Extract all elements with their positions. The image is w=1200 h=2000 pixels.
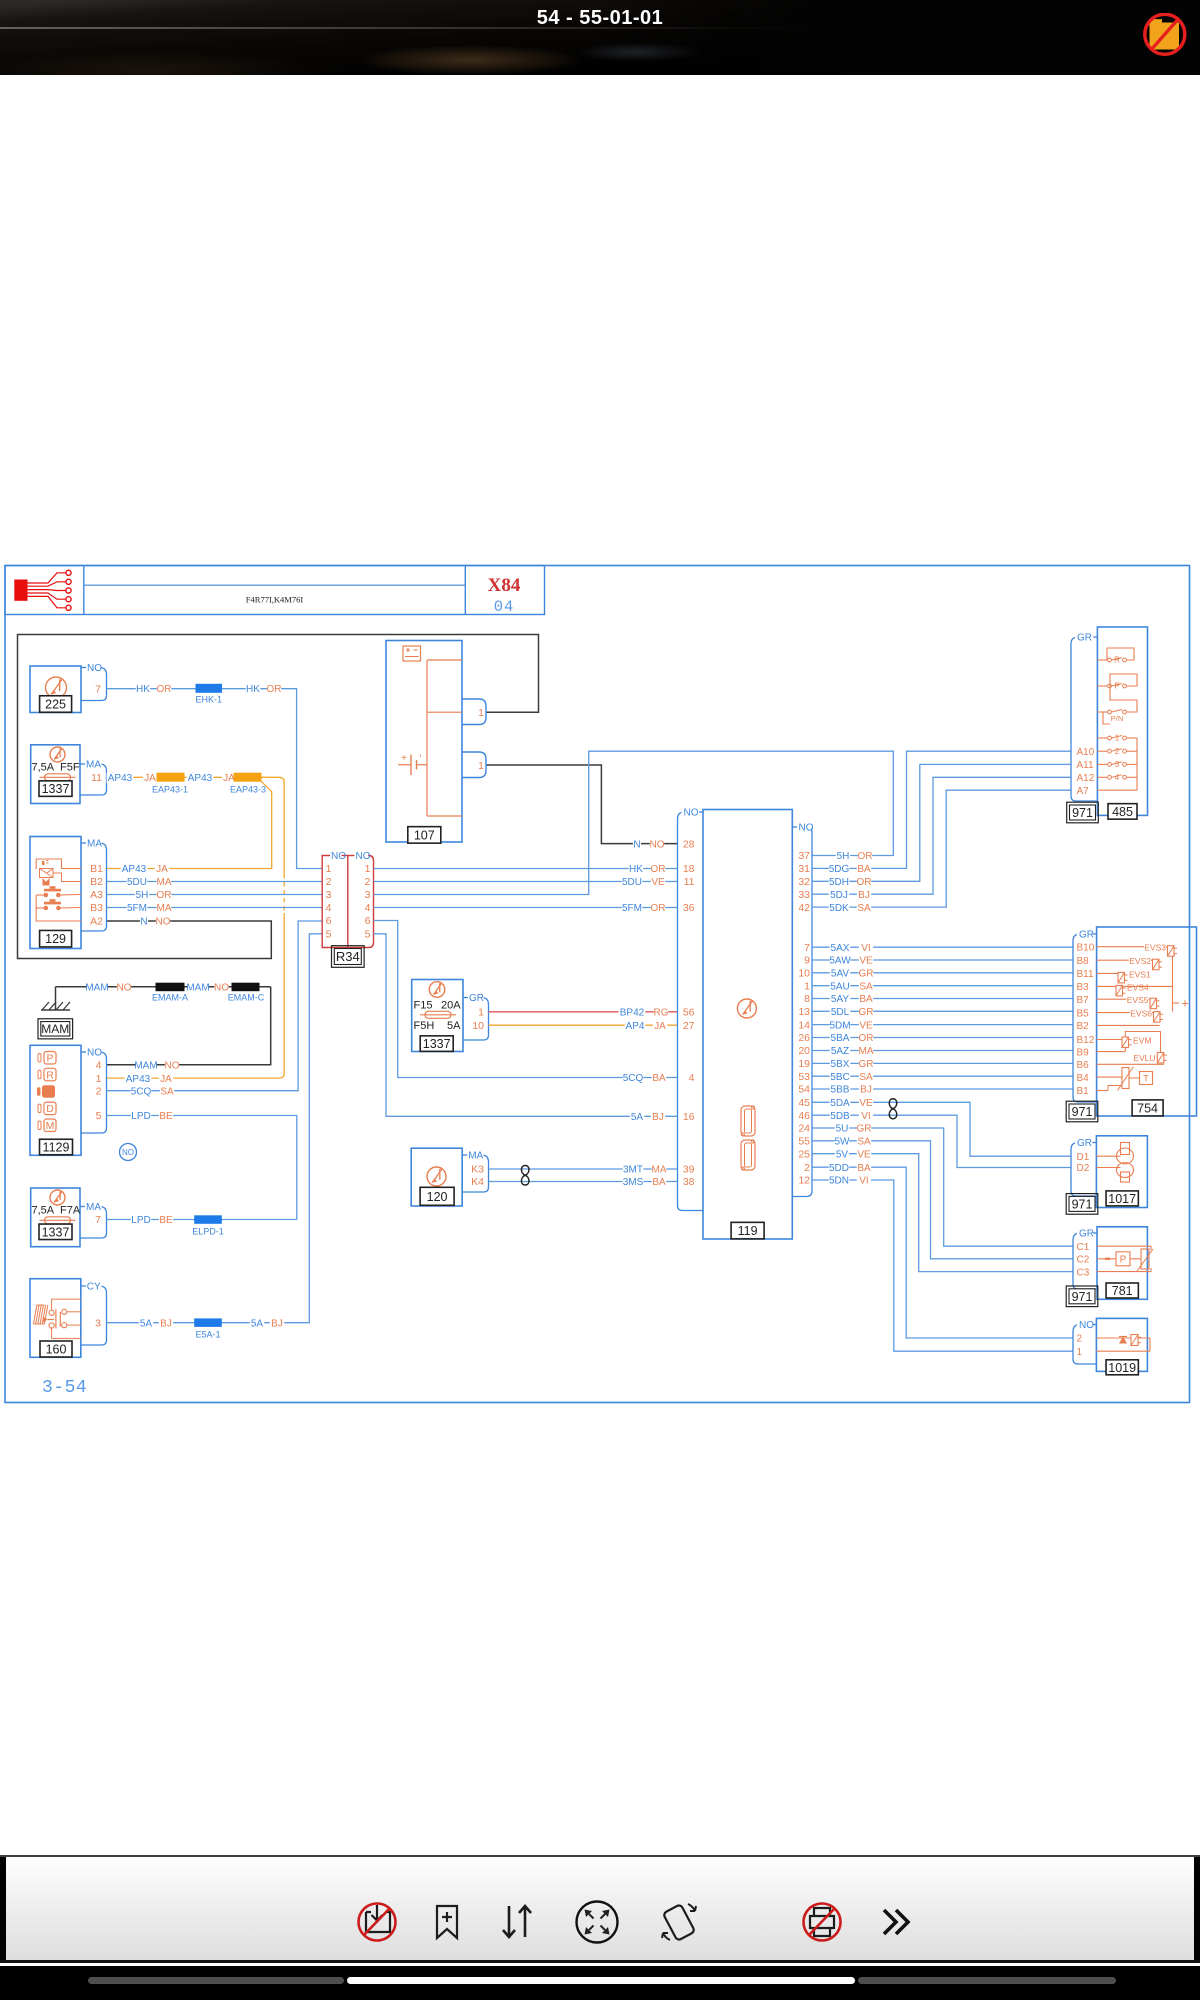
wire 5W-SA 119.55 to 781.C2 bbox=[812, 1136, 1073, 1259]
connector bracket F7A pin MA/7 bbox=[80, 1201, 107, 1239]
svg-text:971: 971 bbox=[1072, 1105, 1093, 1119]
label 971 (781) bbox=[1066, 1286, 1098, 1307]
svg-text:MAM: MAM bbox=[41, 1022, 69, 1036]
svg-text:3MS: 3MS bbox=[623, 1177, 644, 1188]
svg-text:1: 1 bbox=[96, 1073, 102, 1085]
svg-text:5DH: 5DH bbox=[829, 877, 849, 888]
svg-text:B7: B7 bbox=[1077, 995, 1090, 1006]
svg-text:B12: B12 bbox=[1077, 1035, 1095, 1046]
wire 5H-OR 129.A3 to R34 bbox=[107, 890, 323, 901]
svg-text:HK: HK bbox=[246, 684, 260, 695]
component 120 (sensor) bbox=[411, 1148, 462, 1206]
svg-text:B6: B6 bbox=[1077, 1060, 1090, 1071]
connector bracket 1017 GR/D1,D2 bbox=[1071, 1137, 1096, 1197]
wire 5DJ-BJ 119.33 to 485.A12 bbox=[812, 777, 1071, 901]
svg-text:9: 9 bbox=[804, 955, 810, 967]
connector bracket 120 pins MA/K3,K4 bbox=[462, 1149, 488, 1192]
svg-text:OR: OR bbox=[651, 864, 666, 875]
component 1337 fuses F15 20A / F5H 5A bbox=[412, 980, 463, 1052]
svg-text:R: R bbox=[1114, 656, 1120, 665]
svg-text:225: 225 bbox=[45, 698, 66, 712]
svg-text:EAP43-1: EAP43-1 bbox=[152, 784, 188, 794]
wire LPD-BE F7A to ELPD-1 bbox=[107, 1215, 297, 1226]
svg-text:1: 1 bbox=[478, 760, 484, 772]
wire 3MT-MA 120.K3 to 119 pin 39 bbox=[489, 1165, 678, 1176]
wire 5DU-VE R34.2 to 119 pin 11 bbox=[374, 877, 678, 888]
svg-text:EVLU: EVLU bbox=[1133, 1053, 1155, 1063]
wire 5AU-SA 119 to 754.B3 bbox=[812, 981, 1073, 992]
label 781 bbox=[1106, 1283, 1138, 1298]
svg-text:AP43: AP43 bbox=[108, 773, 133, 784]
svg-text:8: 8 bbox=[804, 993, 810, 1005]
svg-text:24: 24 bbox=[798, 1123, 810, 1135]
svg-text:5: 5 bbox=[365, 929, 371, 941]
svg-text:1: 1 bbox=[1115, 734, 1120, 743]
svg-text:B11: B11 bbox=[1077, 969, 1094, 980]
splice EHK-1 bbox=[196, 684, 223, 704]
svg-text:1: 1 bbox=[478, 707, 484, 719]
svg-text:MA: MA bbox=[86, 1202, 101, 1213]
svg-text:14: 14 bbox=[798, 1019, 810, 1031]
page reference 3-54 bbox=[42, 1378, 87, 1398]
svg-text:5FM: 5FM bbox=[622, 903, 642, 914]
svg-text:7: 7 bbox=[804, 942, 810, 954]
svg-text:4: 4 bbox=[326, 902, 332, 914]
component 119 (injection ECU) bbox=[703, 810, 792, 1240]
svg-text:26: 26 bbox=[798, 1032, 810, 1044]
wire 5DG-BA 119.31 to 485.A10 bbox=[812, 751, 1071, 875]
wire AP4-JA F5H to 119 pin 27 bbox=[489, 1021, 678, 1032]
svg-text:5AU: 5AU bbox=[830, 981, 849, 992]
svg-text:OR: OR bbox=[157, 684, 172, 695]
svg-text:5A: 5A bbox=[631, 1112, 644, 1123]
svg-text:A2: A2 bbox=[90, 916, 103, 928]
svg-text:AP43: AP43 bbox=[126, 1074, 151, 1085]
svg-text:20: 20 bbox=[798, 1045, 810, 1057]
svg-text:AP43: AP43 bbox=[188, 773, 213, 784]
wire HK-OR R34.1 to 119 pin 18 bbox=[374, 864, 678, 875]
component 225 (sensor) bbox=[30, 666, 81, 713]
svg-text:39: 39 bbox=[683, 1164, 695, 1176]
svg-text:F4R77I,K4M76I: F4R77I,K4M76I bbox=[246, 595, 304, 605]
svg-text:EVS1: EVS1 bbox=[1129, 969, 1151, 979]
svg-text:EVS6: EVS6 bbox=[1130, 1009, 1152, 1019]
svg-text:5CQ: 5CQ bbox=[623, 1073, 644, 1084]
svg-text:BA: BA bbox=[652, 1073, 666, 1084]
connector bracket F5F pin MA/11 bbox=[80, 758, 107, 795]
label 971 (754) bbox=[1066, 1101, 1098, 1122]
svg-text:120: 120 bbox=[427, 1190, 448, 1204]
component 1337 fuse F7A 7,5A bbox=[31, 1188, 81, 1247]
component 1017 (fuel pump/injector) bbox=[1096, 1136, 1147, 1208]
svg-text:B3: B3 bbox=[1077, 982, 1090, 993]
svg-text:5W: 5W bbox=[835, 1137, 851, 1148]
wire 5A-BJ R34.5 to 119 pin 16 bbox=[374, 934, 678, 1123]
svg-text:5FM: 5FM bbox=[127, 903, 147, 914]
wire 3MS-BA 120.K4 to 119 pin 38 bbox=[489, 1177, 678, 1188]
svg-text:485: 485 bbox=[1112, 805, 1133, 819]
svg-text:B8: B8 bbox=[1077, 956, 1090, 967]
label 1019 bbox=[1106, 1360, 1138, 1375]
svg-text:GR: GR bbox=[859, 1007, 874, 1018]
svg-text:16: 16 bbox=[683, 1111, 695, 1123]
svg-text:5A: 5A bbox=[447, 1020, 461, 1032]
label 1017 bbox=[1106, 1191, 1138, 1206]
svg-text:T: T bbox=[1143, 1073, 1149, 1083]
svg-text:5AV: 5AV bbox=[831, 969, 849, 980]
svg-text:NO: NO bbox=[117, 982, 132, 993]
svg-text:5DU: 5DU bbox=[622, 877, 642, 888]
svg-text:5DG: 5DG bbox=[829, 864, 850, 875]
svg-text:R: R bbox=[46, 1069, 54, 1081]
svg-text:5: 5 bbox=[96, 1110, 102, 1122]
connector bracket 119 right NO bbox=[792, 821, 813, 1197]
svg-text:MA: MA bbox=[468, 1151, 483, 1162]
svg-text:GR: GR bbox=[1077, 633, 1092, 644]
header X84 label bbox=[488, 575, 521, 616]
svg-text:19: 19 bbox=[798, 1058, 810, 1070]
svg-text:11: 11 bbox=[684, 876, 695, 888]
svg-text:GR: GR bbox=[1079, 1229, 1094, 1240]
svg-text:2: 2 bbox=[365, 876, 371, 888]
wire 5BX-GR 119 to 754.B6 bbox=[812, 1059, 1073, 1070]
svg-text:D: D bbox=[46, 1103, 54, 1115]
svg-text:5AW: 5AW bbox=[829, 956, 851, 967]
wire 5AW-VE 119 to 754.B8 bbox=[812, 956, 1073, 967]
connector bracket 129 pins MA/B1,B2,A3,B3,A2 bbox=[81, 837, 107, 931]
svg-text:SA: SA bbox=[859, 981, 873, 992]
svg-text:3-54: 3-54 bbox=[42, 1378, 87, 1398]
svg-text:NO: NO bbox=[156, 917, 171, 928]
svg-text:4: 4 bbox=[96, 1060, 102, 1072]
svg-text:EAP43-3: EAP43-3 bbox=[230, 784, 266, 794]
svg-text:5DA: 5DA bbox=[830, 1098, 850, 1109]
svg-text:NO: NO bbox=[799, 823, 814, 834]
svg-text:5BX: 5BX bbox=[831, 1059, 850, 1070]
svg-text:04: 04 bbox=[494, 598, 515, 616]
svg-text:OR: OR bbox=[157, 890, 172, 901]
svg-text:EVS2: EVS2 bbox=[1129, 956, 1151, 966]
svg-text:5AZ: 5AZ bbox=[831, 1046, 849, 1057]
svg-text:6: 6 bbox=[326, 915, 332, 927]
svg-text:OR: OR bbox=[857, 877, 872, 888]
twisted pair mark 1017 wires bbox=[889, 1099, 897, 1119]
svg-text:P: P bbox=[1114, 682, 1119, 691]
svg-text:EMAM-A: EMAM-A bbox=[152, 993, 188, 1003]
wire AP43-JA fuse F5F to splices bbox=[107, 773, 285, 1078]
svg-text:B2: B2 bbox=[1077, 1021, 1090, 1032]
svg-text:BA: BA bbox=[859, 994, 873, 1005]
svg-text:BA: BA bbox=[857, 1163, 871, 1174]
svg-text:SA: SA bbox=[859, 1072, 873, 1083]
wire 5DA-VE 119.45 to 1017.D1 bbox=[812, 1098, 1071, 1156]
svg-text:BJ: BJ bbox=[271, 1318, 283, 1329]
svg-text:1: 1 bbox=[478, 1007, 484, 1019]
svg-text:3MT: 3MT bbox=[623, 1165, 643, 1176]
svg-text:3: 3 bbox=[365, 889, 371, 901]
svg-text:JA: JA bbox=[156, 864, 168, 875]
battery pin 2 (lower) bbox=[462, 752, 486, 778]
svg-text:EMAM-C: EMAM-C bbox=[228, 993, 265, 1003]
wire N-NO ground loop from battery pin 1 bbox=[18, 635, 539, 959]
svg-text:28: 28 bbox=[683, 838, 695, 850]
splice EAP43-1 bbox=[152, 773, 188, 794]
header title band bbox=[5, 566, 545, 615]
svg-text:D2: D2 bbox=[1077, 1163, 1090, 1174]
connector bracket 1129 pins NO/4,1,2,5 bbox=[81, 1046, 107, 1133]
svg-text:GR: GR bbox=[857, 1124, 872, 1135]
svg-text:RG: RG bbox=[654, 1008, 669, 1019]
svg-text:VE: VE bbox=[859, 1020, 873, 1031]
svg-text:5BC: 5BC bbox=[830, 1072, 849, 1083]
svg-text:5BA: 5BA bbox=[831, 1033, 850, 1044]
wire 5A-BJ 160.3 to R34 pin 5 bbox=[107, 934, 323, 1330]
svg-text:P/N: P/N bbox=[1111, 714, 1124, 723]
svg-text:971: 971 bbox=[1072, 1290, 1093, 1304]
wire BP42-RG F15 to 119 pin 56 bbox=[489, 1007, 678, 1018]
svg-text:MA: MA bbox=[157, 903, 172, 914]
wire AP43-JA branch to 129 pin B1 bbox=[107, 781, 272, 875]
wire 5AV-GR 119 to 754.B11 bbox=[812, 968, 1073, 979]
svg-text:SA: SA bbox=[857, 1137, 871, 1148]
svg-text:5A: 5A bbox=[251, 1318, 264, 1329]
svg-text:38: 38 bbox=[683, 1176, 695, 1188]
svg-text:BJ: BJ bbox=[652, 1112, 664, 1123]
svg-text:2: 2 bbox=[1115, 747, 1120, 756]
svg-text:13: 13 bbox=[798, 1006, 810, 1018]
svg-text:HK: HK bbox=[629, 864, 643, 875]
svg-text:E5A-1: E5A-1 bbox=[195, 1330, 220, 1340]
component 107 (battery) bbox=[386, 641, 462, 844]
svg-text:107: 107 bbox=[414, 828, 435, 842]
component 754 (injection solenoid block) bbox=[1097, 927, 1197, 1116]
svg-text:NO: NO bbox=[684, 808, 699, 819]
svg-text:37: 37 bbox=[798, 850, 810, 862]
svg-text:CY: CY bbox=[87, 1282, 101, 1293]
svg-text:5V: 5V bbox=[836, 1149, 849, 1160]
svg-text:5H: 5H bbox=[837, 851, 850, 862]
wire AP43-JA label at 1129 pin 1 bbox=[125, 1074, 174, 1085]
svg-text:754: 754 bbox=[1137, 1101, 1158, 1115]
svg-text:5DU: 5DU bbox=[127, 877, 147, 888]
svg-text:JA: JA bbox=[144, 773, 156, 784]
svg-text:SA: SA bbox=[857, 903, 871, 914]
toolbar icon: download (disabled) bbox=[366, 1905, 390, 1932]
svg-text:VE: VE bbox=[859, 1098, 873, 1109]
toolbar icon: print (disabled) bbox=[810, 1908, 834, 1936]
svg-text:56: 56 bbox=[683, 1007, 695, 1019]
svg-text:5U: 5U bbox=[836, 1124, 849, 1135]
splice EMAM-A bbox=[152, 983, 188, 1003]
svg-text:32: 32 bbox=[798, 876, 810, 888]
svg-text:EVS3: EVS3 bbox=[1144, 943, 1166, 953]
wire 5AY-BA 119 to 754.B7 bbox=[812, 994, 1073, 1005]
svg-text:5CQ: 5CQ bbox=[131, 1086, 152, 1097]
wire N-NO label on 129.A2 bbox=[140, 917, 171, 928]
svg-text:VI: VI bbox=[861, 943, 870, 954]
svg-text:5DJ: 5DJ bbox=[830, 890, 848, 901]
svg-text:5AY: 5AY bbox=[831, 994, 849, 1005]
svg-text:3: 3 bbox=[1115, 760, 1120, 769]
toolbar icon: more (chevrons) bbox=[884, 1910, 908, 1934]
twisted pair mark 120 wires bbox=[521, 1166, 529, 1186]
svg-text:160: 160 bbox=[46, 1343, 67, 1357]
svg-text:36: 36 bbox=[683, 902, 695, 914]
svg-text:B9: B9 bbox=[1077, 1047, 1090, 1058]
svg-text:53: 53 bbox=[798, 1071, 810, 1083]
svg-text:F15: F15 bbox=[414, 1000, 433, 1012]
connector bracket 160 pins CY/3 bbox=[81, 1280, 107, 1345]
svg-text:2: 2 bbox=[804, 1162, 810, 1174]
svg-text:4: 4 bbox=[1115, 773, 1120, 782]
svg-text:A7: A7 bbox=[1077, 786, 1090, 797]
svg-text:NO: NO bbox=[165, 1061, 180, 1072]
svg-text:X84: X84 bbox=[488, 575, 521, 596]
connector bracket 1019 NO/2,1 bbox=[1073, 1319, 1096, 1365]
svg-text:33: 33 bbox=[798, 889, 810, 901]
svg-text:7,5A: 7,5A bbox=[32, 762, 55, 774]
svg-text:EVS5: EVS5 bbox=[1127, 995, 1149, 1005]
svg-text:BJ: BJ bbox=[858, 890, 870, 901]
svg-text:NO: NO bbox=[650, 839, 665, 850]
header vehicle type text bbox=[246, 595, 304, 605]
connector bracket 781 GR/C1,C2,C3 bbox=[1073, 1227, 1097, 1289]
svg-text:MAM: MAM bbox=[134, 1061, 157, 1072]
svg-text:7,5A: 7,5A bbox=[32, 1205, 55, 1217]
svg-text:4: 4 bbox=[689, 1072, 695, 1084]
svg-text:1: 1 bbox=[365, 863, 371, 875]
svg-text:1019: 1019 bbox=[1108, 1361, 1136, 1375]
svg-text:1017: 1017 bbox=[1108, 1192, 1136, 1206]
annotation NO circle bbox=[120, 1144, 137, 1161]
component 1129 (gear selector indicator) bbox=[30, 1045, 81, 1155]
wire MAM-NO ground to EMAM splices to 1129 pin 4 bbox=[56, 982, 271, 1071]
wire 5DN-VI 119.12 to 1019.1 bbox=[812, 1176, 1073, 1352]
connector bracket 225 pin NO/7 bbox=[81, 662, 107, 701]
svg-text:7: 7 bbox=[95, 683, 101, 695]
svg-text:1: 1 bbox=[804, 980, 810, 992]
svg-text:A12: A12 bbox=[1077, 773, 1095, 784]
wire label N-NO at 119 pin 28 bbox=[633, 839, 665, 850]
svg-text:MAM: MAM bbox=[85, 982, 108, 993]
svg-text:BE: BE bbox=[159, 1215, 173, 1226]
wire 5BA-OR 119 to 754.B12 bbox=[812, 1033, 1073, 1044]
svg-text:GR: GR bbox=[1077, 1138, 1092, 1149]
svg-text:31: 31 bbox=[798, 863, 810, 875]
svg-text:C1: C1 bbox=[1077, 1242, 1090, 1253]
svg-text:55: 55 bbox=[798, 1136, 810, 1148]
svg-text:F5F: F5F bbox=[60, 762, 80, 774]
svg-text:5DK: 5DK bbox=[829, 903, 849, 914]
svg-text:EVS4: EVS4 bbox=[1127, 982, 1149, 992]
svg-text:B2: B2 bbox=[90, 876, 103, 888]
svg-text:3: 3 bbox=[95, 1317, 101, 1329]
svg-text:JA: JA bbox=[654, 1021, 666, 1032]
svg-text:129: 129 bbox=[45, 932, 66, 946]
wire 5BB-BJ 119 to 754.B1 bbox=[812, 1085, 1073, 1096]
svg-text:5BB: 5BB bbox=[831, 1085, 850, 1096]
svg-text:5A: 5A bbox=[140, 1318, 153, 1329]
svg-text:5: 5 bbox=[326, 929, 332, 941]
wire 5DD-BA 119.2 to 1019.2 bbox=[812, 1163, 1073, 1338]
svg-text:4: 4 bbox=[365, 902, 371, 914]
svg-text:LPD: LPD bbox=[131, 1215, 150, 1226]
svg-text:HK: HK bbox=[136, 684, 150, 695]
splice EAP43-3 bbox=[230, 773, 266, 794]
label 485 bbox=[1108, 804, 1137, 820]
svg-text:B10: B10 bbox=[1077, 942, 1095, 953]
svg-text:5H: 5H bbox=[136, 890, 149, 901]
wire LPD-BE 1129.5 joins F7A bbox=[107, 1111, 297, 1220]
svg-text:NO: NO bbox=[122, 1148, 134, 1157]
svg-text:B4: B4 bbox=[1077, 1073, 1090, 1084]
svg-text:18: 18 bbox=[683, 863, 695, 875]
svg-text:LPD: LPD bbox=[131, 1111, 150, 1122]
wire 5AZ-MA 119 to 754.B9 bbox=[812, 1046, 1073, 1057]
svg-text:11: 11 bbox=[91, 772, 102, 784]
svg-text:2: 2 bbox=[96, 1085, 102, 1097]
wire 5BC-SA 119 to 754.B4 bbox=[812, 1072, 1073, 1083]
svg-text:45: 45 bbox=[798, 1097, 810, 1109]
svg-text:54: 54 bbox=[798, 1084, 810, 1096]
toolbar icon: scroll up/down bbox=[503, 1906, 531, 1937]
svg-text:12: 12 bbox=[798, 1175, 810, 1187]
svg-text:C3: C3 bbox=[1077, 1267, 1090, 1278]
svg-text:25: 25 bbox=[798, 1148, 810, 1160]
component 1019 (solenoid with diode) bbox=[1096, 1318, 1150, 1371]
svg-text:971: 971 bbox=[1072, 1197, 1093, 1211]
svg-text:B1: B1 bbox=[90, 863, 103, 875]
toolbar icon: rotate device bbox=[662, 1904, 696, 1941]
diagram outer border bbox=[5, 566, 1190, 1403]
svg-text:20A: 20A bbox=[441, 1000, 461, 1012]
svg-text:46: 46 bbox=[798, 1110, 810, 1122]
connector bracket 119 left NO bbox=[678, 806, 704, 1211]
svg-text:971: 971 bbox=[1072, 806, 1093, 820]
svg-text:AP43: AP43 bbox=[122, 864, 147, 875]
svg-text:OR: OR bbox=[267, 684, 282, 695]
wire 5FM-MA 129.B3 to R34 bbox=[107, 903, 323, 914]
svg-text:K3: K3 bbox=[471, 1164, 484, 1176]
svg-text:VI: VI bbox=[859, 1176, 868, 1187]
connector R34 bbox=[322, 851, 373, 967]
svg-text:B1: B1 bbox=[1077, 1086, 1090, 1097]
no-folder icon bbox=[1145, 14, 1185, 54]
svg-text:JA: JA bbox=[223, 773, 235, 784]
toolbar icon: add bookmark bbox=[437, 1906, 457, 1938]
svg-text:A3: A3 bbox=[90, 889, 103, 901]
svg-text:NO: NO bbox=[1079, 1320, 1094, 1331]
svg-text:5AX: 5AX bbox=[831, 943, 850, 954]
svg-text:N: N bbox=[140, 917, 147, 928]
svg-text:10: 10 bbox=[472, 1020, 484, 1032]
svg-text:1337: 1337 bbox=[42, 1225, 70, 1239]
svg-text:M: M bbox=[46, 1120, 55, 1132]
splice E5A-1 bbox=[195, 1319, 222, 1340]
svg-text:GR: GR bbox=[1079, 930, 1094, 941]
component 485 (selector switch) bbox=[1097, 627, 1147, 815]
connector bracket 485 GR/A10,A11,A12,A7 bbox=[1071, 631, 1097, 801]
svg-text:': ' bbox=[420, 753, 422, 763]
svg-text:VE: VE bbox=[651, 877, 665, 888]
wire 5DB-VI 119.46 to 1017.D2 bbox=[812, 1111, 1071, 1168]
svg-text:MA: MA bbox=[86, 760, 101, 771]
svg-text:27: 27 bbox=[683, 1020, 695, 1032]
svg-text:VI: VI bbox=[861, 1111, 870, 1122]
svg-text:BJ: BJ bbox=[160, 1318, 172, 1329]
svg-text:1337: 1337 bbox=[42, 782, 70, 796]
svg-text:K4: K4 bbox=[471, 1176, 484, 1188]
